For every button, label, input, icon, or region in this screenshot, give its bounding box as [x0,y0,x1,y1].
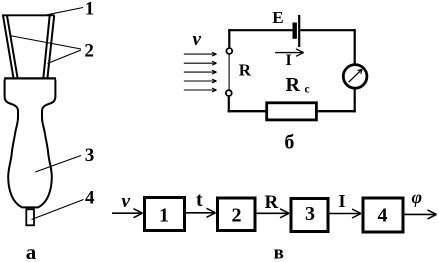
wire: top-right horizontal segment [300,29,355,31]
photoresistor R wire between terminals [228,55,230,90]
arrow block1 to block2 [186,212,215,214]
svg-text:R: R [286,74,301,96]
arrow block3 to block4 [330,213,361,215]
svg-text:R: R [239,60,252,79]
light arrows nu [184,52,217,92]
device body outline [5,80,56,208]
leader line to 2 upper [10,36,82,50]
galvanometer needle [349,69,362,82]
svg-text:2: 2 [232,205,242,227]
wire: bottom-left horizontal segment [228,110,266,112]
leader line to 3 [35,156,81,173]
svg-text:3: 3 [305,203,315,225]
svg-text:в: в [274,243,284,262]
wire: left vertical lower segment [228,97,230,113]
device body top edge [4,77,56,79]
svg-text:φ: φ [412,187,423,207]
wire: bottom-right horizontal segment [317,110,356,112]
svg-text:1: 1 [85,0,95,20]
leader line to 4 [32,200,84,220]
svg-text:1: 1 [159,205,169,227]
current arrow I [275,52,303,54]
wire: right vertical lower segment [354,89,356,112]
funnel right wall inner line [43,16,49,78]
svg-text:а: а [26,240,37,262]
block diagram output arrow (phi) [405,213,437,215]
leader line to 2 lower [48,50,82,64]
svg-text:2: 2 [84,41,94,62]
svg-text:t: t [196,189,203,211]
battery E positive plate (long thin bar) [298,15,300,47]
svg-text:R: R [265,192,279,213]
photoresistor R bottom terminal [226,90,232,96]
block 4 [363,198,403,232]
svg-text:I: I [286,52,292,69]
device tip rectangle (4) [26,209,34,225]
svg-text:б: б [284,132,294,154]
arrow block2 to block3 [257,212,289,214]
funnel left wall outer line [3,16,13,78]
svg-text:ν: ν [122,191,131,212]
block 3 [291,199,328,232]
galvanometer (meter) [343,65,367,89]
wire: top-left horizontal segment [228,29,292,31]
svg-text:I: I [339,191,346,211]
photoresistor R top terminal [226,48,232,54]
svg-text:3: 3 [85,145,95,166]
svg-text:ν: ν [193,29,202,50]
load resistor Rc box [267,103,317,120]
svg-text:4: 4 [378,205,388,227]
funnel right wall outer line [48,16,55,78]
block diagram input arrow (nu) [112,212,142,214]
leader line to 1 [42,8,83,16]
battery E negative plate (short thick bar) [293,23,297,39]
block 2 [218,198,256,231]
svg-text:c: c [305,84,310,96]
wire: right vertical upper segment [354,29,356,63]
svg-text:4: 4 [85,187,95,208]
svg-text:E: E [272,8,283,27]
block 1 [145,198,185,231]
wire: left vertical upper segment [228,29,230,47]
funnel left wall inner line [7,16,18,78]
funnel top edge [2,14,55,16]
